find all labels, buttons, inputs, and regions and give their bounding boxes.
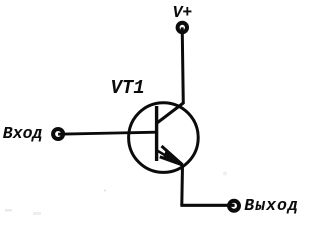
svg-text:Вход: Вход (3, 124, 43, 143)
svg-text:V+: V+ (173, 3, 193, 22)
svg-text:Выход: Выход (244, 196, 299, 215)
svg-text:VT1: VT1 (111, 77, 145, 99)
